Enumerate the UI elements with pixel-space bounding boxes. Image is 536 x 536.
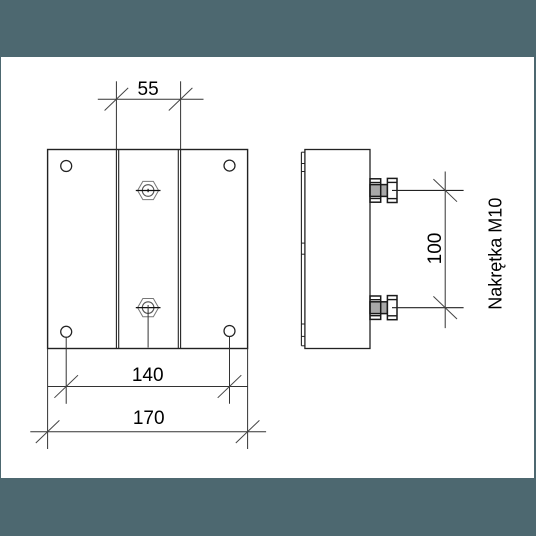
svg-text:170: 170 <box>133 408 165 429</box>
svg-text:100: 100 <box>425 233 446 265</box>
svg-text:55: 55 <box>138 79 159 100</box>
svg-text:Nakrętka M10: Nakrętka M10 <box>486 198 506 310</box>
svg-text:140: 140 <box>132 365 164 386</box>
